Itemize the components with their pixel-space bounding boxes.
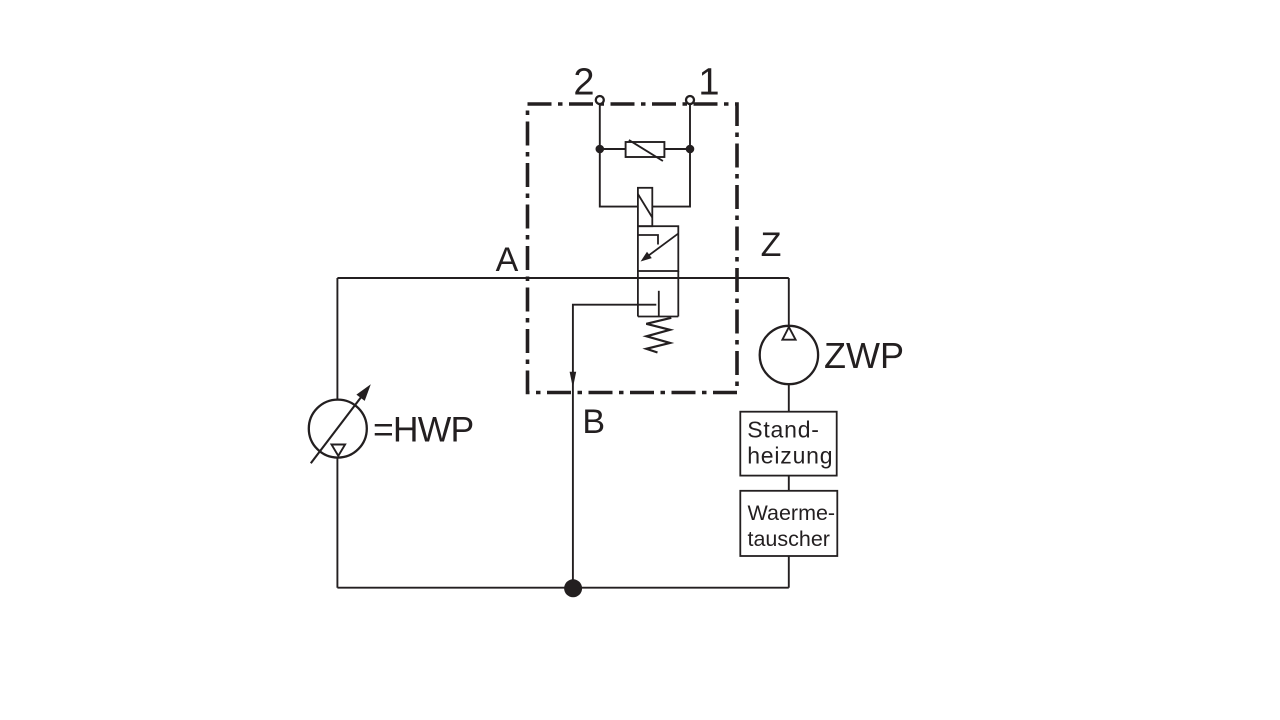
valve position square (bottom) sides xyxy=(638,271,678,317)
wire ZWP to Standheizung xyxy=(788,384,790,412)
wire restrictor to right node xyxy=(664,148,690,150)
wire pipe to ZWP xyxy=(788,278,790,326)
port 1 terminal circle xyxy=(686,96,694,104)
wire left node to restrictor xyxy=(600,148,626,150)
main pipe A-Z xyxy=(337,277,788,279)
flow arrowhead B xyxy=(570,372,577,388)
wire port1 down xyxy=(689,104,691,149)
box Waermetauscher xyxy=(740,491,837,556)
spring xyxy=(646,318,671,353)
svg-text:heizung: heizung xyxy=(747,442,833,468)
wire right node down to solenoid xyxy=(652,149,690,207)
junction node left xyxy=(596,145,605,154)
blocked port bar xyxy=(658,291,660,317)
svg-text:A: A xyxy=(496,241,519,279)
valve internal flow arrowhead xyxy=(641,252,652,262)
wire port2 down xyxy=(599,104,601,149)
bottom return pipe xyxy=(337,587,788,589)
wire pipe to HWP xyxy=(336,278,338,400)
junction node right xyxy=(686,145,695,154)
solenoid diagonal xyxy=(638,194,652,218)
valve position square (top) xyxy=(638,226,678,271)
svg-text:1: 1 xyxy=(698,62,719,104)
pump HWP flow triangle xyxy=(332,445,346,456)
wire left node down to solenoid xyxy=(600,149,638,207)
svg-text:B: B xyxy=(582,403,605,441)
pump ZWP circle xyxy=(760,326,818,384)
solenoid coil Y (rect) xyxy=(638,188,652,226)
valve internal flow arrow shaft xyxy=(646,234,678,258)
wire Waermetauscher down xyxy=(788,556,790,588)
valve internal blocked path (L shape) xyxy=(638,235,658,245)
pump HWP arrowhead xyxy=(356,384,370,401)
restrictor diagonal xyxy=(629,140,663,161)
svg-text:2: 2 xyxy=(573,62,594,104)
box Standheizung xyxy=(740,412,836,476)
pump HWP circle xyxy=(309,400,367,458)
wire Standheizung to Waermetauscher xyxy=(788,476,790,491)
port 2 terminal circle xyxy=(596,96,604,104)
valve bottom edge xyxy=(638,316,678,318)
svg-text:ZWP: ZWP xyxy=(824,335,904,376)
junction node bottom xyxy=(564,579,582,597)
pump ZWP flow triangle xyxy=(782,327,795,340)
restrictor R (rect) xyxy=(626,142,665,157)
svg-text:=HWP: =HWP xyxy=(373,410,473,450)
valve enclosure dash-dot border xyxy=(528,104,738,393)
svg-text:Stand-: Stand- xyxy=(747,417,820,443)
svg-text:tauscher: tauscher xyxy=(748,527,830,551)
wire HWP down xyxy=(336,458,338,588)
pump HWP variable arrow shaft xyxy=(311,397,361,463)
svg-text:Waerme-: Waerme- xyxy=(748,501,836,525)
wire B branch xyxy=(573,305,656,588)
svg-text:Z: Z xyxy=(761,226,782,264)
